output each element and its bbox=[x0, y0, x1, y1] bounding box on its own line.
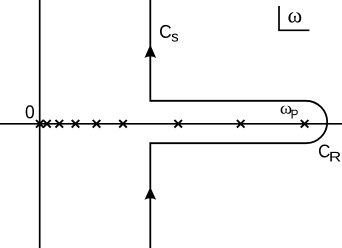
pole x5 bbox=[93, 120, 101, 128]
label C_R bbox=[319, 144, 330, 157]
arrow up (upper contour segment) bbox=[145, 45, 157, 58]
pole x6 bbox=[119, 120, 127, 128]
pole x1 bbox=[36, 120, 44, 128]
label C_s bbox=[160, 25, 171, 38]
pole x4 bbox=[72, 120, 80, 128]
pole x2 bbox=[43, 120, 51, 128]
pole x3 bbox=[56, 120, 64, 128]
label omega_P bbox=[281, 106, 292, 114]
arrow up (lower contour segment) bbox=[145, 187, 157, 200]
omega axis corner bracket (top right) bbox=[279, 6, 309, 30]
imaginary axis (vertical) bbox=[39, 0, 41, 248]
Landau contour C (vertical line with stadium detour around omega_P) bbox=[150, 0, 327, 248]
pole x8 bbox=[237, 120, 245, 128]
label 0 at origin bbox=[26, 105, 34, 118]
label omega (in corner bracket) bbox=[288, 12, 301, 22]
pole x7 bbox=[174, 120, 182, 128]
pole x9 (omega_P pole) bbox=[301, 120, 309, 128]
real axis (horizontal) bbox=[0, 123, 342, 125]
